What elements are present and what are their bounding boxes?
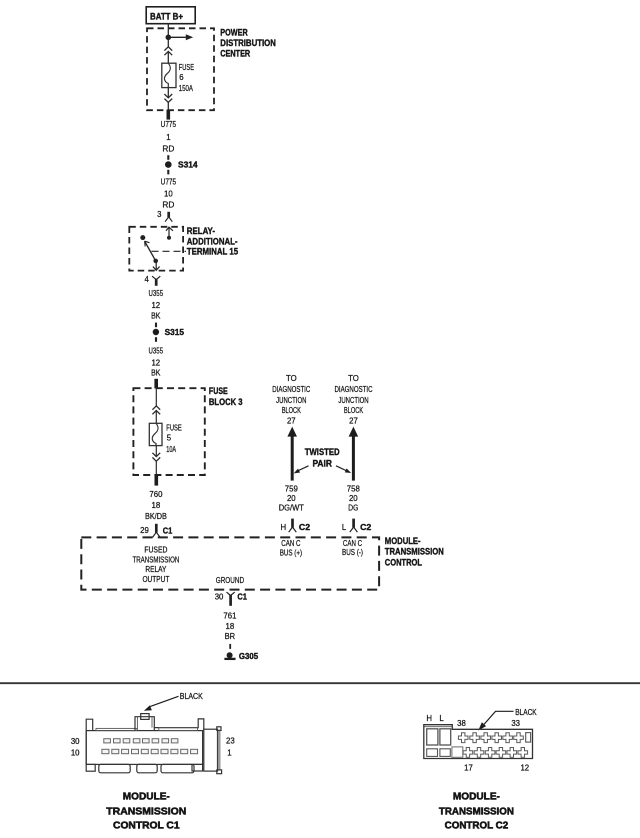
svg-text:12: 12 xyxy=(151,301,160,310)
svg-text:TERMINAL 15: TERMINAL 15 xyxy=(187,247,238,257)
connector C1 caption xyxy=(106,791,186,832)
svg-text:U775: U775 xyxy=(161,178,177,187)
svg-text:S315: S315 xyxy=(165,327,185,337)
svg-text:758: 758 xyxy=(347,485,360,494)
svg-text:CENTER: CENTER xyxy=(220,48,250,58)
C2 top seam xyxy=(425,726,453,728)
wire from BATT B+ into PDC xyxy=(167,24,169,63)
power distribution center label xyxy=(220,28,276,59)
wire label 759 20 DG/WT xyxy=(279,485,304,513)
svg-text:TRANSMISSION: TRANSMISSION xyxy=(439,806,514,818)
svg-text:TWISTED: TWISTED xyxy=(305,447,340,457)
svg-text:BUS (+): BUS (+) xyxy=(280,549,303,558)
svg-text:BUS (-): BUS (-) xyxy=(342,548,363,557)
module transmission control label xyxy=(385,536,444,568)
svg-text:DG: DG xyxy=(348,504,358,513)
svg-text:BK/DB: BK/DB xyxy=(145,512,167,521)
connector C1 black label with arrow xyxy=(144,692,204,711)
svg-text:JUNCTION: JUNCTION xyxy=(276,396,306,405)
svg-text:BLOCK: BLOCK xyxy=(344,406,364,415)
svg-text:DIAGNOSTIC: DIAGNOSTIC xyxy=(335,385,373,394)
svg-text:38: 38 xyxy=(457,719,466,728)
svg-text:TRANSMISSION: TRANSMISSION xyxy=(385,546,444,556)
C2 pin labels xyxy=(426,714,529,772)
wire CAN C bus plus with arrow xyxy=(287,427,297,481)
svg-text:12: 12 xyxy=(151,359,160,368)
C2 plus pin row 2 xyxy=(463,748,473,758)
C1 end cap top corner square xyxy=(217,727,221,731)
svg-text:18: 18 xyxy=(152,501,161,510)
ground G305 xyxy=(224,644,258,661)
svg-text:C1: C1 xyxy=(163,525,173,535)
relay dashed box xyxy=(129,227,183,271)
wire fuse to PDC box bottom xyxy=(167,88,169,111)
svg-text:C1: C1 xyxy=(237,591,247,601)
node label to diagnostic junction block left xyxy=(272,374,310,426)
svg-text:BK: BK xyxy=(151,311,161,320)
svg-text:TO: TO xyxy=(286,374,297,383)
twisted pair label xyxy=(305,447,340,468)
svg-text:BLOCK: BLOCK xyxy=(282,406,302,415)
svg-text:MODULE-: MODULE- xyxy=(453,791,500,803)
svg-text:MODULE-: MODULE- xyxy=(385,536,421,546)
svg-text:CONTROL C2: CONTROL C2 xyxy=(445,820,509,832)
svg-text:U355: U355 xyxy=(149,347,164,356)
svg-text:POWER: POWER xyxy=(220,28,248,38)
svg-text:PAIR: PAIR xyxy=(312,458,332,468)
svg-text:29: 29 xyxy=(140,526,149,535)
twisted pair leader arrow left xyxy=(294,466,309,474)
svg-text:OUTPUT: OUTPUT xyxy=(142,575,169,584)
module internal label can c bus minus xyxy=(342,539,363,557)
svg-text:BLOCK 3: BLOCK 3 xyxy=(209,397,243,407)
wire label U355 12 BK xyxy=(149,289,164,321)
svg-text:L: L xyxy=(342,523,347,532)
wire label 758 20 DG xyxy=(347,485,360,513)
svg-text:U775: U775 xyxy=(161,120,177,129)
wire label 760 18 BK/DB xyxy=(145,490,167,521)
svg-text:33: 33 xyxy=(511,719,520,728)
svg-text:FUSE: FUSE xyxy=(166,423,181,432)
C1 bottom right stub foot xyxy=(192,764,203,771)
in-line connector chevrons above fuse 5 xyxy=(152,406,160,414)
thick wire stub leaving fuse block xyxy=(155,475,159,486)
svg-text:27: 27 xyxy=(349,417,358,426)
svg-text:760: 760 xyxy=(149,490,163,499)
svg-text:DIAGNOSTIC: DIAGNOSTIC xyxy=(272,385,310,394)
wire label 761 18 BR xyxy=(223,612,236,642)
svg-text:GROUND: GROUND xyxy=(216,576,245,585)
svg-text:FUSE: FUSE xyxy=(179,63,194,72)
svg-text:1: 1 xyxy=(227,749,231,758)
svg-text:H: H xyxy=(281,523,287,532)
wire label U355 12 BK second xyxy=(149,347,164,378)
svg-text:RELAY: RELAY xyxy=(145,565,167,574)
C1 pin cavity row 1 xyxy=(104,739,178,743)
svg-text:TRANSMISSION: TRANSMISSION xyxy=(106,806,186,818)
module transmission control dashed box xyxy=(81,537,379,589)
C1 bottom foot A xyxy=(99,764,130,772)
svg-text:BLACK: BLACK xyxy=(515,708,537,717)
svg-text:10A: 10A xyxy=(166,445,176,454)
C1 pin cavity row 2 xyxy=(102,749,198,753)
svg-text:H: H xyxy=(426,714,432,723)
svg-text:DISTRIBUTION: DISTRIBUTION xyxy=(220,38,276,48)
relay terminal arrow up xyxy=(166,227,173,240)
svg-text:6: 6 xyxy=(179,73,183,82)
svg-text:18: 18 xyxy=(226,622,235,631)
pin H C2 connector xyxy=(281,519,311,533)
node junction dot with branch arrow xyxy=(166,34,194,40)
svg-text:RELAY-: RELAY- xyxy=(187,226,215,236)
splice S314 xyxy=(165,155,198,174)
thick wire stub into fuse block xyxy=(154,379,158,389)
fuse block 3 label xyxy=(209,386,243,407)
svg-text:CAN C: CAN C xyxy=(281,539,300,548)
splice S315 xyxy=(153,323,185,342)
C1 end cap shading xyxy=(218,731,221,771)
svg-text:FUSE: FUSE xyxy=(209,386,228,396)
svg-text:12: 12 xyxy=(520,763,529,772)
svg-text:U355: U355 xyxy=(149,289,164,298)
fuse F6 xyxy=(162,63,176,87)
C1 left tower wall xyxy=(86,719,93,764)
svg-text:FUSED: FUSED xyxy=(144,545,167,554)
separator line xyxy=(0,682,640,684)
C1 end cap bottom corner square xyxy=(217,770,222,774)
wire inside fuse block lower xyxy=(155,446,157,475)
svg-text:TO: TO xyxy=(348,374,359,383)
svg-text:ADDITIONAL-: ADDITIONAL- xyxy=(187,237,238,247)
C2 lower left cavity 1 xyxy=(427,749,438,757)
C1 top seam right xyxy=(159,728,198,731)
wire inside fuse block upper xyxy=(155,388,157,423)
C1 right raised body section xyxy=(154,719,204,731)
svg-text:4: 4 xyxy=(144,275,149,284)
svg-text:5: 5 xyxy=(167,434,172,443)
svg-text:1: 1 xyxy=(166,133,170,142)
pin 29 C1 connector into module xyxy=(140,524,172,538)
svg-text:759: 759 xyxy=(285,485,298,494)
svg-text:27: 27 xyxy=(287,417,296,426)
pin 30 C1 ground connector below module xyxy=(215,591,247,605)
svg-text:CONTROL: CONTROL xyxy=(385,557,423,567)
svg-text:BK: BK xyxy=(151,369,161,378)
C1 lock tab cap xyxy=(141,714,149,720)
svg-text:20: 20 xyxy=(287,494,296,503)
svg-text:761: 761 xyxy=(223,612,236,621)
C1 main body xyxy=(86,731,202,765)
in-line connector chevrons below fuse 5 xyxy=(152,453,160,461)
C1 bottom foot C xyxy=(161,764,194,772)
svg-text:3: 3 xyxy=(157,210,161,219)
relay terminal 15 dashed leader xyxy=(152,250,187,252)
C1 bottom left stub foot xyxy=(86,764,95,771)
C1 top seam left xyxy=(96,728,137,730)
pin 3 connector into relay xyxy=(157,210,172,222)
fuse F6 value label xyxy=(179,63,194,93)
svg-text:RD: RD xyxy=(162,144,174,153)
module internal label fused transmission relay output xyxy=(132,545,179,584)
node label to diagnostic junction block right xyxy=(335,374,373,426)
relay switch blade xyxy=(140,235,159,270)
C2 row2 square cavity xyxy=(452,747,463,757)
svg-text:BLACK: BLACK xyxy=(180,692,204,701)
svg-text:150A: 150A xyxy=(179,84,194,93)
C2 pin L cavity xyxy=(440,729,451,745)
fuse F5 value label xyxy=(166,423,181,454)
svg-text:JUNCTION: JUNCTION xyxy=(338,396,368,405)
svg-text:10: 10 xyxy=(71,749,80,758)
C1 pin number labels xyxy=(71,737,235,758)
pin L C2 connector xyxy=(342,519,372,533)
wire label U775 10 RD xyxy=(161,178,177,210)
power distribution center dashed box xyxy=(147,28,214,110)
pin 4 connector below relay xyxy=(144,275,160,286)
svg-text:17: 17 xyxy=(464,763,473,772)
C2 plus pin row 1 xyxy=(458,733,468,743)
svg-text:CONTROL C1: CONTROL C1 xyxy=(113,820,180,832)
svg-text:CAN C: CAN C xyxy=(343,539,362,548)
svg-text:MODULE-: MODULE- xyxy=(123,791,170,803)
svg-text:S314: S314 xyxy=(178,160,198,170)
twisted pair leader arrow right xyxy=(336,466,351,473)
svg-text:30: 30 xyxy=(71,737,80,746)
svg-text:23: 23 xyxy=(226,737,235,746)
fuse block 3 dashed box xyxy=(133,388,204,475)
connector C1 drawing xyxy=(86,714,221,774)
C2 lower left cavity 2 xyxy=(440,749,450,757)
thick wire stub leaving PDC xyxy=(167,110,171,120)
C1 lock tab inner walls xyxy=(137,717,152,731)
svg-text:C2: C2 xyxy=(360,522,371,532)
svg-text:30: 30 xyxy=(215,593,224,602)
relay label xyxy=(187,226,238,257)
fuse F5 xyxy=(149,423,162,445)
connector C2 caption xyxy=(439,791,514,832)
C1 center lock tab xyxy=(135,717,154,731)
C1 end cap xyxy=(204,729,218,771)
svg-text:L: L xyxy=(439,714,444,723)
wire CAN C bus minus with arrow xyxy=(349,427,359,481)
svg-text:RD: RD xyxy=(162,201,174,210)
in-line connector chevrons below fuse xyxy=(164,94,172,102)
svg-text:DG/WT: DG/WT xyxy=(279,504,304,513)
in-line connector chevrons above fuse xyxy=(164,47,172,55)
module internal label can c bus plus xyxy=(280,539,303,558)
C1 bottom foot B xyxy=(137,764,157,772)
svg-text:G305: G305 xyxy=(239,651,259,661)
C2 pin H cavity xyxy=(427,729,438,745)
svg-text:20: 20 xyxy=(349,494,358,503)
svg-text:TRANSMISSION: TRANSMISSION xyxy=(132,555,179,564)
C2 row1 right small cavity xyxy=(526,733,531,743)
battery feed box BATT B+ xyxy=(146,7,195,24)
svg-text:BATT B+: BATT B+ xyxy=(150,11,183,21)
connector C2 body outline xyxy=(424,725,533,759)
svg-text:10: 10 xyxy=(164,189,173,198)
svg-text:BR: BR xyxy=(225,632,236,641)
svg-text:C2: C2 xyxy=(299,522,310,532)
wire label U775 1 RD xyxy=(161,120,177,153)
connector C2 black label with arrow xyxy=(478,708,537,731)
